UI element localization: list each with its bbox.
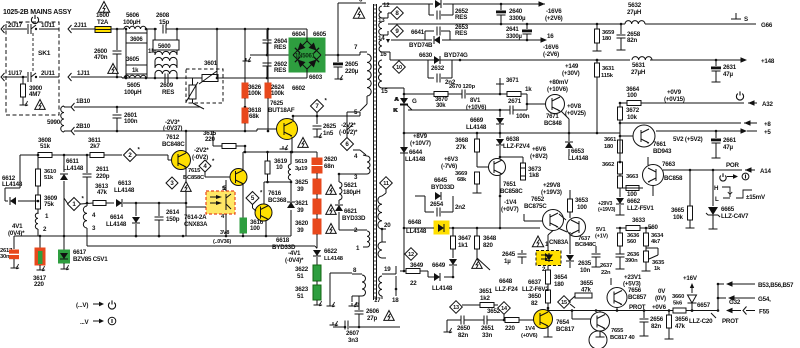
svg-text:27µH: 27µH [627, 9, 642, 16]
svg-text:5632: 5632 [628, 2, 642, 9]
svg-text:15: 15 [561, 300, 567, 306]
bridge rectifier 6601 1N5061 [289, 38, 325, 72]
svg-text:2n2: 2n2 [455, 204, 466, 211]
svg-text:7663: 7663 [662, 161, 676, 168]
label 7614-2A CNX83A [184, 214, 208, 228]
svg-text:(+19V3): (+19V3) [598, 207, 616, 213]
label +0V8 [565, 103, 586, 117]
optocoupler 7614-2A CNX83A [206, 191, 235, 214]
capacitor 2655 82n [0, 0, 1, 1]
wire pin14 out [385, 31, 390, 43]
rail 320 caps [444, 320, 462, 333]
svg-text:6657: 6657 [697, 302, 711, 309]
label 7654 BC817 [556, 319, 575, 333]
svg-text:3620: 3620 [295, 220, 309, 227]
rail +8 [620, 120, 771, 128]
label 3626 100k [248, 84, 262, 97]
svg-text:7656: 7656 [628, 287, 642, 294]
label 3617 220 [33, 275, 47, 288]
wire row 110 [408, 109, 527, 112]
transistor 7651 circle [489, 159, 506, 176]
svg-text:2661: 2661 [723, 137, 737, 144]
svg-text:RES: RES [274, 67, 286, 74]
resistor 3611 2k7 [64, 153, 122, 158]
svg-text:-1V4: -1V4 [504, 199, 517, 206]
svg-text:12: 12 [408, 252, 414, 258]
wire 3661 down [619, 153, 622, 163]
resistor 3663 [618, 174, 640, 196]
svg-text:(+8V2): (+8V2) [530, 153, 548, 160]
svg-text:5606: 5606 [126, 12, 140, 19]
svg-text:2640: 2640 [509, 8, 523, 15]
svg-text:1k8: 1k8 [529, 172, 539, 179]
svg-text:3622: 3622 [295, 266, 309, 273]
orange resistor 3625 39 [0, 0, 1, 1]
svg-text:BC368: BC368 [268, 197, 287, 204]
wire 7663 emitter down [0, 0, 1, 1]
svg-text:RES: RES [274, 44, 286, 51]
label +6V3 [441, 156, 459, 170]
ground 3622 [314, 301, 323, 306]
svg-text:100k: 100k [248, 90, 262, 97]
svg-text:+8V9: +8V9 [413, 133, 428, 140]
wire 7612 emitter [185, 167, 187, 203]
wire 7625 emitter [291, 137, 294, 153]
warning triangle 3621 [326, 205, 336, 215]
svg-text:...V: ...V [80, 319, 90, 326]
wire 7616 emitter [265, 220, 267, 236]
label pin5 opto [222, 186, 226, 192]
svg-text:LLZ-F5V1: LLZ-F5V1 [627, 205, 654, 212]
capacitor 2670 120p [449, 84, 476, 99]
svg-text:2k7: 2k7 [90, 143, 100, 150]
svg-text:6644: 6644 [409, 149, 423, 156]
svg-text:2U17: 2U17 [8, 22, 23, 29]
label +23V1 [623, 274, 642, 288]
svg-text:1600: 1600 [96, 12, 110, 19]
wire 64 down [63, 192, 65, 236]
degauss coil 5990 [61, 106, 64, 132]
capacitor 2653 RES [425, 27, 450, 41]
arrow A32 [748, 100, 774, 108]
svg-text:22: 22 [410, 280, 417, 287]
svg-text:180: 180 [602, 36, 611, 42]
svg-text:6648: 6648 [499, 278, 513, 285]
svg-text:+0V8: +0V8 [567, 103, 582, 110]
label 1V4 +0V6 [521, 326, 538, 339]
svg-text:82: 82 [531, 300, 538, 307]
label 2B10 [76, 123, 91, 130]
svg-text:220: 220 [34, 281, 44, 288]
diamond node 2 [124, 148, 141, 162]
svg-text:-16V6: -16V6 [543, 44, 559, 51]
svg-text:2620: 2620 [324, 156, 338, 163]
svg-text:+80mV: +80mV [549, 79, 569, 86]
svg-text:3661: 3661 [604, 137, 617, 143]
wire 7661 coll [619, 123, 621, 160]
primary winding 4-3 [354, 153, 370, 181]
wire mains bottom right [39, 76, 59, 78]
label 19 [384, 266, 391, 273]
svg-text:100: 100 [250, 225, 260, 232]
resistor 3631 115k [595, 59, 616, 133]
svg-text:820: 820 [483, 242, 493, 249]
diamond node 11 [380, 177, 393, 190]
rail 4V1 bottom [14, 235, 186, 238]
wire diag 6648 [477, 258, 490, 270]
rail POR [663, 162, 772, 175]
rail 8V1 [404, 93, 527, 110]
coil pins 4 3 [83, 203, 96, 246]
svg-text:22n: 22n [601, 270, 611, 276]
label 6657 [697, 302, 711, 309]
label 3650 82 [528, 293, 542, 307]
svg-text:3621: 3621 [295, 200, 309, 207]
svg-text:3665: 3665 [671, 207, 685, 214]
svg-text:(+10V6): (+10V6) [547, 86, 568, 93]
svg-text:5V1: 5V1 [596, 227, 605, 233]
wire 7656 coll [616, 308, 618, 311]
svg-text:7625: 7625 [270, 100, 284, 107]
warning triangle 7625 [298, 138, 308, 148]
svg-text:6653: 6653 [571, 148, 585, 155]
diode 6611 [60, 155, 68, 192]
wire pin15 out [385, 88, 405, 95]
wire 7654 coll [547, 306, 550, 310]
label 6648 LLZ-F24 [495, 278, 518, 293]
svg-text:BC848C: BC848C [575, 242, 597, 248]
svg-text:47µ: 47µ [723, 144, 733, 151]
wire 7615 base [211, 176, 230, 178]
resistor 3654 180 [546, 266, 568, 289]
svg-text:(-2V6): (-2V6) [543, 51, 559, 58]
svg-text:100µH: 100µH [124, 89, 142, 96]
svg-text:+5: +5 [764, 129, 771, 136]
wire 2B10 [64, 127, 200, 135]
svg-text:6613: 6613 [118, 180, 132, 187]
svg-text:150p: 150p [166, 216, 180, 223]
svg-text:2637: 2637 [600, 263, 612, 269]
wire 3653 up [569, 190, 571, 199]
svg-text:(+1V): (+1V) [595, 234, 608, 240]
rail +5 [656, 128, 771, 136]
label 2604 RES [274, 38, 288, 51]
svg-text:2607: 2607 [346, 330, 360, 337]
svg-text:BYD74G: BYD74G [444, 52, 468, 59]
label 2641 3300u [506, 27, 523, 40]
resistor 3650 82 [546, 284, 551, 311]
label +6V6 [530, 146, 548, 160]
wire 7652 base [524, 214, 543, 221]
svg-text:2631: 2631 [723, 64, 737, 71]
svg-text:7614-2A: 7614-2A [184, 214, 207, 221]
svg-text:2606: 2606 [366, 308, 380, 315]
svg-text:BC848C: BC848C [162, 141, 185, 148]
diamond node 13 [450, 301, 463, 314]
rail 13 G66 [388, 22, 773, 29]
svg-text:(+30V): (+30V) [562, 70, 580, 77]
label 2620 68n [324, 156, 338, 170]
label 7612 BC848C [162, 134, 185, 148]
label 3613 47k [95, 183, 109, 196]
thermistor vertical [186, 78, 204, 109]
svg-text:L: L [715, 196, 719, 203]
orange capacitor 2620 68n [312, 152, 322, 173]
svg-text:3601: 3601 [204, 60, 218, 67]
arrow F55 [726, 307, 770, 316]
svg-text:115k: 115k [601, 73, 614, 79]
resistor 3673 1k8 [521, 157, 542, 176]
label 2658 82n [627, 31, 641, 44]
secondary winding 14-16 [379, 40, 387, 58]
resistor 3636 560 [618, 227, 641, 254]
svg-text:BUT18AF: BUT18AF [268, 107, 295, 114]
inductor 5621 180uH [339, 182, 361, 204]
svg-text:47k: 47k [675, 323, 685, 330]
wire -2V3 cont [200, 130, 213, 132]
diode 6612 LL4148 [2, 155, 39, 205]
label 17 [374, 297, 381, 304]
svg-text:15p: 15p [159, 19, 169, 26]
svg-text:6603: 6603 [309, 74, 323, 81]
label 2602 RES [274, 61, 288, 74]
capacitor 2604 RES [263, 29, 272, 56]
svg-text:2609: 2609 [160, 82, 174, 89]
wire 7652 coll [559, 214, 566, 220]
rail POR A14 [0, 0, 1, 1]
svg-text:27p: 27p [367, 315, 377, 322]
ground 6617 [61, 265, 70, 270]
earth S [731, 13, 748, 23]
svg-text:3671: 3671 [506, 78, 519, 84]
dashed box NTC [186, 69, 223, 103]
svg-text:68k: 68k [457, 177, 467, 183]
svg-text:3647: 3647 [458, 235, 472, 242]
svg-text:1k1: 1k1 [458, 242, 468, 249]
resistor 3634 4k7 [644, 227, 665, 251]
label +29V3 [598, 201, 616, 213]
svg-text:1µ: 1µ [504, 258, 511, 265]
label 5 near 7615 [223, 186, 227, 192]
diode 6657 LLZ-C20 [688, 295, 697, 312]
icons POR [720, 173, 749, 181]
green resistor 3622 51 [295, 258, 321, 281]
wire emitters join [186, 235, 291, 238]
diode 6648 yellow [434, 221, 449, 234]
diode 6644 LL4148 [400, 147, 426, 170]
svg-text:6641: 6641 [411, 29, 425, 36]
label 3610 51k [44, 169, 56, 181]
label 6614 LL4148 [106, 214, 127, 228]
svg-text:6662: 6662 [627, 198, 641, 205]
svg-text:560: 560 [627, 239, 636, 245]
diode 6641 BYD74B [425, 36, 450, 44]
svg-text:LL4148: LL4148 [568, 155, 589, 162]
label 3V8 [213, 230, 231, 245]
rail 306 [0, 0, 1, 1]
switch SK1 top [28, 24, 37, 34]
svg-text:CNX83A: CNX83A [184, 221, 208, 228]
transistor 7652 BC875C [524, 196, 564, 231]
orange resistor 3626 100k [242, 29, 248, 107]
label 0V 0V [655, 288, 666, 302]
svg-text:68n: 68n [324, 163, 334, 170]
diamond node 5 [246, 191, 263, 205]
svg-text:7655: 7655 [611, 328, 624, 334]
svg-text:30n: 30n [0, 254, 10, 260]
svg-text:S: S [744, 16, 748, 23]
resistor 3655 47k [569, 280, 594, 302]
svg-text:3662: 3662 [602, 162, 614, 168]
label +80mV [547, 79, 569, 93]
svg-text:1n5: 1n5 [323, 130, 334, 137]
svg-text:6637: 6637 [528, 279, 542, 286]
svg-text:6649: 6649 [432, 262, 446, 269]
label pin4 opto [221, 214, 225, 220]
svg-text:2614: 2614 [166, 209, 180, 216]
secondary winding 11-20 [378, 190, 386, 231]
svg-text:6617: 6617 [73, 249, 87, 256]
svg-text:2671: 2671 [508, 98, 522, 105]
secondary winding 20-19 [378, 242, 386, 258]
label 6611 LL4148 [63, 158, 84, 172]
svg-text:3650: 3650 [528, 293, 542, 300]
wire 6637 up [569, 232, 571, 254]
diode 6653 LL4148 [565, 133, 589, 162]
svg-text:1U17: 1U17 [8, 70, 23, 77]
capacitor 2614 150p [155, 203, 164, 237]
svg-text:+0V6: +0V6 [652, 304, 667, 311]
wire mains bottom left [1, 73, 27, 81]
diode 6613 [116, 199, 137, 207]
label 6641 [411, 29, 425, 36]
svg-text:5621: 5621 [344, 182, 358, 189]
svg-text:47µ: 47µ [723, 71, 733, 78]
wire 1B10 [64, 103, 200, 111]
svg-text:6638: 6638 [506, 136, 520, 143]
resistor 100 [626, 186, 639, 199]
wire mains top right [39, 28, 59, 30]
transistor 7654 BC817 [534, 310, 553, 329]
svg-text:BYD74B: BYD74B [409, 42, 433, 49]
svg-text:82n: 82n [627, 37, 637, 44]
wire pin5 [347, 112, 360, 130]
svg-text:6630: 6630 [419, 52, 433, 59]
power symbol mains [31, 15, 38, 24]
label 6618 BYD33D [272, 237, 296, 251]
svg-text:7616: 7616 [268, 190, 282, 197]
warning triangle top [98, 2, 109, 13]
svg-text:T2A: T2A [97, 19, 109, 26]
transistor 7637 BC848C [567, 218, 598, 249]
svg-text:7612: 7612 [166, 134, 180, 141]
svg-text:B53,B56,B57: B53,B56,B57 [758, 282, 794, 289]
svg-text:27µH: 27µH [631, 69, 646, 76]
svg-text:(-0V4)*: (-0V4)* [285, 257, 304, 264]
label 3609 75k [44, 195, 58, 208]
svg-text:100: 100 [577, 204, 587, 211]
svg-text:2B10: 2B10 [76, 123, 91, 130]
label 1600 T2A [96, 12, 110, 26]
capacitor 2640 3300u [497, 4, 506, 24]
rail -2V2 [213, 130, 245, 132]
label +5V1 [595, 227, 608, 240]
label 2601 100n [124, 112, 138, 125]
svg-text:33n: 33n [482, 332, 492, 339]
wire 7616 base [253, 205, 257, 212]
svg-text:470n: 470n [94, 54, 108, 61]
svg-text:100n: 100n [516, 113, 530, 120]
wire caps to bridge [267, 54, 289, 56]
diode 6665 LLZ-C4V7 [706, 170, 720, 229]
svg-text:2645: 2645 [502, 251, 516, 258]
svg-text:LLZ-F2V4: LLZ-F2V4 [503, 143, 530, 150]
warning triangle CN83A [532, 236, 543, 247]
svg-text:BC817: BC817 [556, 326, 575, 333]
diode 6630 BYD74G [419, 52, 468, 64]
label 3665 10k [671, 207, 685, 221]
svg-text:3605: 3605 [126, 56, 140, 63]
svg-text:180: 180 [604, 144, 613, 150]
label 1k8 [521, 168, 540, 180]
label 2656 82n [650, 316, 664, 330]
label 2U17 [8, 22, 23, 29]
wire fuse to node [111, 28, 122, 31]
svg-text:5619: 5619 [295, 159, 308, 165]
svg-text:(+0V7): (+0V7) [501, 206, 519, 213]
capacitor 2607 3n3 [330, 315, 401, 330]
svg-text:6669: 6669 [470, 117, 484, 124]
wire top to bridge [167, 28, 307, 31]
ground pin9 [349, 302, 358, 307]
transistor 7612 [172, 151, 191, 170]
resistor 3651 1k2 [462, 288, 498, 308]
svg-text:51: 51 [297, 293, 304, 300]
rail 16 +148 [390, 57, 775, 65]
svg-text:5600: 5600 [158, 44, 171, 50]
diode 6618 BYD33D [287, 182, 295, 236]
resistor 3672 10k [618, 102, 640, 125]
wire snubber top [243, 151, 317, 154]
svg-text:6604: 6604 [292, 31, 306, 38]
thyristor labels AK [394, 97, 400, 114]
svg-text:10: 10 [276, 164, 283, 171]
transistor 7625 BUT18AF [277, 119, 298, 140]
svg-text:7651: 7651 [503, 181, 517, 188]
wire 15 right [570, 304, 575, 308]
wire 7651 down [499, 156, 523, 230]
svg-text:3606: 3606 [130, 37, 143, 43]
svg-text:100k: 100k [271, 90, 285, 97]
resistor 3668 27k [455, 133, 480, 160]
primary winding 2-1 [354, 227, 370, 252]
capacitor 2609 RES [160, 74, 174, 97]
svg-text:2U11: 2U11 [41, 70, 55, 77]
svg-text:1k: 1k [148, 48, 155, 55]
svg-text:6611: 6611 [66, 158, 79, 165]
svg-text:2650: 2650 [457, 325, 471, 332]
secondary winding 13-14 [378, 22, 385, 42]
capacitor 2611 220p [83, 155, 110, 192]
label 2624 100k [271, 84, 285, 97]
resistor col x595 a [0, 0, 1, 1]
resistor 3609 75k [36, 186, 41, 214]
label 3619 10 [274, 158, 288, 171]
svg-text:2654: 2654 [430, 201, 444, 208]
vert main 404 [403, 170, 405, 228]
resistor 3613 [86, 201, 114, 206]
resistor 2671 1k [507, 86, 532, 105]
